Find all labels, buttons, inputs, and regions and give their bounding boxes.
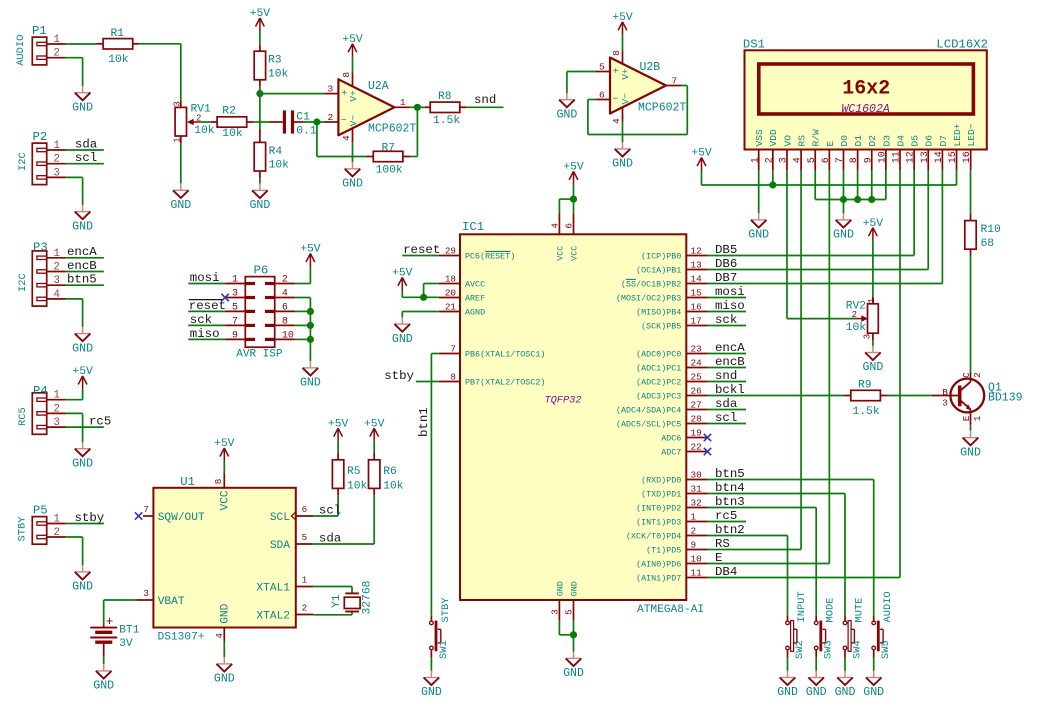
svg-text:3: 3 (779, 157, 790, 163)
wire / label miso (IC1) (708, 299, 747, 313)
svg-text:btn4: btn4 (715, 481, 745, 495)
svg-text:B: B (942, 387, 948, 398)
svg-text:(MOSI/OC2)PB3: (MOSI/OC2)PB3 (616, 294, 681, 304)
wire U2A.4 to GND (352, 142, 354, 162)
wire R4 to GND (259, 178, 261, 184)
ground (P4) (72, 442, 93, 471)
svg-text:68: 68 (981, 238, 995, 250)
svg-text:10k: 10k (268, 68, 289, 80)
svg-text:R4: R4 (269, 146, 283, 158)
svg-text:+5V: +5V (563, 162, 584, 174)
switch SW2 (INPUT) (786, 591, 808, 659)
wire +5V to RV2 (872, 241, 874, 297)
svg-text:AREF: AREF (465, 294, 485, 304)
svg-text:3: 3 (173, 101, 183, 106)
svg-text:(XCK/T0)PD4: (XCK/T0)PD4 (626, 532, 681, 542)
svg-text:GND: GND (835, 686, 856, 699)
svg-text:1: 1 (232, 275, 238, 286)
label DB5 (715, 243, 737, 257)
svg-text:(ADC2)PC2: (ADC2)PC2 (636, 378, 681, 388)
junction (bias node) (256, 90, 263, 97)
connector P4 (RC5) (17, 384, 66, 435)
svg-text:rc5: rc5 (715, 509, 737, 523)
svg-text:DS1307+: DS1307+ (158, 631, 205, 643)
LCD pin 3 (VO) (779, 135, 794, 171)
wire DB7 (LCD.14 to IC1.14) (708, 170, 943, 283)
junction (GND) (570, 631, 577, 638)
svg-text:GND: GND (300, 377, 321, 390)
power +5V (R5) (328, 418, 349, 441)
svg-text:V+: V+ (620, 68, 631, 80)
svg-text:U2A: U2A (368, 80, 389, 93)
wire P3.4 to GND (66, 299, 83, 328)
svg-text:DB5: DB5 (715, 243, 737, 257)
power +5V (LCD rail) (691, 148, 712, 171)
svg-text:16x2: 16x2 (842, 77, 890, 100)
svg-text:10k: 10k (383, 480, 404, 492)
IC1 pin 18 (AVCC) (439, 274, 485, 290)
svg-text:P5: P5 (33, 504, 48, 518)
power +5V (AVCC) (392, 268, 413, 291)
svg-text:snd: snd (715, 369, 737, 383)
svg-text:D7: D7 (938, 135, 949, 147)
svg-text:2: 2 (54, 403, 60, 415)
svg-text:10k: 10k (222, 128, 243, 140)
svg-text:0.1: 0.1 (296, 125, 317, 137)
IC1 pin 12 ((ICP)PB0) (641, 246, 707, 262)
power +5V (IC1) (563, 162, 584, 185)
wire U1.4 to GND (223, 642, 225, 658)
svg-text:3V: 3V (119, 638, 133, 650)
svg-text:btn3: btn3 (715, 495, 745, 509)
label DB6 (715, 257, 737, 271)
svg-text:1.5k: 1.5k (433, 115, 460, 127)
svg-text:SCL: SCL (270, 512, 290, 524)
svg-text:12: 12 (691, 246, 702, 257)
wire / label sda (P2.1) (66, 137, 104, 151)
svg-text:stby: stby (75, 511, 105, 525)
wire U2B+ to GND (567, 72, 596, 94)
svg-text:DB7: DB7 (715, 271, 737, 285)
no-connect U1 SQW/OUT (135, 512, 142, 519)
svg-text:2: 2 (54, 154, 60, 166)
svg-text:9: 9 (232, 331, 238, 342)
svg-text:R8: R8 (438, 91, 452, 103)
svg-text:LED+: LED+ (952, 123, 963, 146)
wire +5V to AVCC/AREF (402, 284, 439, 298)
IC U1 body (IC1 ATMEGA8) (460, 220, 704, 616)
IC1 pin 13 ((OC1A)PB1) (636, 260, 707, 276)
svg-text:sda: sda (319, 531, 342, 545)
wire RV1 wiper to R2 (201, 121, 211, 123)
svg-text:1: 1 (302, 575, 308, 586)
wire P2.3 to GND (66, 177, 83, 205)
IC1 pin 28 ((ADC5/SCL)PC5) (616, 414, 708, 430)
svg-text:miso: miso (715, 299, 745, 313)
svg-text:encB: encB (715, 355, 745, 369)
svg-text:10k: 10k (194, 125, 215, 137)
wire / label mosi (IC1) (708, 285, 747, 299)
wire DB6 (LCD.13 to IC1.13) (708, 170, 929, 269)
svg-text:+5V: +5V (328, 418, 349, 430)
wire R9 to Q1 base (888, 395, 932, 397)
svg-text:19: 19 (691, 428, 702, 439)
svg-text:PC6(RESET): PC6(RESET) (465, 252, 515, 262)
svg-text:MODE: MODE (825, 598, 837, 623)
wire / label rc5 (IC1) (708, 509, 747, 523)
ground (Q1) (960, 431, 981, 460)
svg-text:(ICP)PB0: (ICP)PB0 (641, 252, 681, 262)
crystal Y1 (32768) (313, 580, 373, 614)
svg-text:GND: GND (612, 158, 633, 171)
label DB7 (715, 271, 737, 285)
svg-text:AGND: AGND (465, 308, 485, 318)
svg-text:sda: sda (75, 137, 98, 151)
svg-text:2: 2 (302, 603, 308, 614)
svg-text:R2: R2 (222, 106, 236, 118)
svg-text:RV1: RV1 (191, 104, 212, 116)
svg-text:sck: sck (715, 313, 737, 327)
IC1 PC6 RESET overbar (485, 250, 510, 252)
svg-text:R7: R7 (382, 142, 396, 154)
potentiometer RV1 (173, 101, 215, 143)
wire P4.2 to GND (66, 413, 83, 442)
svg-text:5: 5 (564, 609, 575, 615)
svg-text:30: 30 (691, 470, 702, 481)
svg-text:P1: P1 (32, 24, 47, 38)
svg-text:10: 10 (282, 331, 294, 342)
wire +5V to IC1 VCC pins (559, 185, 573, 214)
wire R2 to C1 (254, 121, 269, 123)
svg-text:+5V: +5V (691, 148, 712, 160)
resistor R9 (844, 379, 888, 418)
wire bias node to U2A+ (260, 93, 325, 95)
junction (P6.10) (307, 336, 314, 343)
svg-text:AUDIO: AUDIO (15, 35, 27, 66)
junction (P6.6) (307, 308, 314, 315)
label DB4 (715, 565, 737, 579)
svg-text:2: 2 (54, 262, 60, 274)
svg-text:STBY: STBY (16, 516, 28, 542)
wire / label sda (IC1) (708, 397, 747, 411)
svg-text:+5V: +5V (392, 268, 413, 280)
svg-text:SDA: SDA (270, 540, 290, 552)
svg-text:2: 2 (327, 112, 333, 123)
svg-text:8: 8 (849, 157, 860, 163)
junction (P6.8) (307, 322, 314, 329)
svg-text:8: 8 (611, 50, 622, 56)
svg-text:3: 3 (54, 275, 60, 287)
svg-text:MCP602T: MCP602T (368, 123, 416, 136)
svg-text:2: 2 (764, 157, 775, 163)
wire SW3 to GND (815, 658, 817, 672)
svg-text:V+: V+ (348, 90, 359, 102)
svg-text:2: 2 (282, 275, 288, 286)
svg-text:10k: 10k (108, 54, 129, 66)
IC1 pin 22 (ADC7) (661, 442, 707, 458)
svg-text:23: 23 (691, 344, 702, 355)
IC1 pin 4 (VCC) (550, 213, 566, 260)
LCD pin 4 (RS) (793, 135, 808, 171)
wire btn2 (IC1.2 to SW2) (708, 523, 788, 616)
svg-text:8: 8 (341, 72, 352, 78)
svg-text:18: 18 (445, 274, 456, 285)
svg-text:(INT1)PD3: (INT1)PD3 (636, 518, 681, 528)
IC1 pin 14 ((SS/OC1B)PB2) (621, 274, 708, 290)
svg-text:scl: scl (75, 151, 97, 165)
svg-text:5: 5 (302, 532, 308, 543)
svg-text:(AIN1)PD7: (AIN1)PD7 (636, 574, 681, 584)
svg-text:15: 15 (948, 151, 959, 163)
svg-text:btn2: btn2 (715, 523, 745, 537)
IC1 pin 27 ((ADC4/SDA)PC4) (616, 400, 708, 416)
svg-text:9: 9 (691, 540, 697, 551)
svg-text:sda: sda (715, 397, 738, 411)
svg-text:RC5: RC5 (17, 407, 29, 426)
wire btn4 (IC1.31 to SW4) (708, 481, 846, 616)
svg-text:32768: 32768 (361, 580, 373, 614)
svg-text:E: E (825, 141, 836, 147)
IC1 pin 24 ((ADC1)PC1) (636, 358, 707, 374)
svg-text:−: − (341, 116, 347, 127)
svg-text:2: 2 (54, 48, 60, 60)
svg-text:BT1: BT1 (119, 625, 140, 637)
svg-text:MCP602T: MCP602T (638, 102, 686, 115)
wire DB4 (LCD.11 to IC1.11) (708, 170, 901, 577)
svg-text:1: 1 (54, 34, 60, 46)
LCD pin 8 (D1) (849, 135, 864, 171)
svg-text:R9: R9 (858, 379, 872, 391)
wire / label scl (U1.6 to R5) (313, 495, 341, 517)
svg-text:3: 3 (54, 417, 60, 429)
connector P1 (AUDIO) (15, 24, 66, 66)
svg-text:7: 7 (672, 75, 678, 86)
svg-text:3: 3 (54, 167, 60, 179)
ground (IC1) (563, 651, 584, 680)
svg-text:+5V: +5V (72, 366, 93, 378)
wire GND rail (R/W,D0-D3) (815, 170, 886, 213)
svg-text:D5: D5 (910, 135, 921, 147)
wire P4.1 to +5V (66, 390, 83, 400)
wire P1.1 to R1 (66, 43, 97, 45)
IC1 pin 3 (GND) (550, 581, 566, 621)
LCD pin 9 (D2) (863, 135, 878, 171)
svg-text:GND: GND (249, 199, 270, 212)
wire / label sck (P6.7) (188, 313, 225, 327)
wire U2A out to R8 (410, 106, 425, 108)
svg-text:6: 6 (821, 157, 832, 163)
svg-text:1: 1 (54, 390, 60, 402)
wire R1 to RV1 (139, 44, 180, 101)
ground (SW1) (421, 671, 442, 700)
svg-text:WC1602A: WC1602A (841, 103, 889, 116)
svg-text:3: 3 (327, 83, 333, 94)
svg-text:GND: GND (72, 342, 93, 355)
svg-text:P3: P3 (33, 240, 48, 254)
svg-text:6: 6 (564, 223, 575, 229)
svg-text:GND: GND (960, 446, 981, 459)
wire LCD VSS to GND (758, 170, 760, 213)
IC1 pin 16 ((MISO)PB4) (636, 302, 707, 318)
svg-text:1: 1 (54, 248, 60, 260)
wire / label stby (IC1.8) (384, 369, 439, 383)
svg-text:GND: GND (72, 457, 93, 470)
wire SW4 to GND (844, 658, 846, 672)
power +5V (P4) (72, 366, 93, 389)
svg-text:10: 10 (877, 151, 888, 163)
wire IC1 GND pins (559, 621, 573, 653)
switch SW3 (MODE) (814, 598, 836, 659)
svg-text:LCD16X2: LCD16X2 (936, 38, 988, 52)
power +5V (RV2) (863, 218, 884, 241)
svg-text:R10: R10 (981, 224, 1002, 236)
svg-text:GND: GND (93, 680, 114, 693)
svg-text:(RXD)PD0: (RXD)PD0 (641, 476, 681, 486)
svg-text:2: 2 (972, 372, 983, 378)
svg-text:(ADC4/SDA)PC4: (ADC4/SDA)PC4 (616, 406, 681, 416)
svg-text:GND: GND (748, 229, 769, 242)
wire R7 to C1 node (317, 122, 366, 157)
svg-text:RS: RS (796, 135, 807, 147)
svg-text:snd: snd (474, 93, 496, 107)
svg-text:1: 1 (54, 514, 60, 526)
LCD pin 14 (D7) (934, 135, 949, 170)
svg-text:10: 10 (691, 554, 702, 565)
svg-text:D0: D0 (839, 135, 850, 147)
svg-text:AUDIO: AUDIO (882, 591, 894, 622)
svg-text:mosi: mosi (190, 271, 220, 285)
wire Q1 emitter to GND (970, 425, 972, 431)
svg-text:+: + (341, 89, 347, 100)
svg-text:GND: GND (72, 581, 93, 594)
IC1 pin 23 ((ADC0)PC0) (636, 344, 707, 360)
ground (P2) (72, 205, 93, 234)
svg-text:VCC: VCC (556, 246, 566, 261)
svg-text:20: 20 (445, 288, 456, 299)
svg-text:3: 3 (550, 609, 561, 615)
svg-text:29: 29 (445, 246, 456, 257)
svg-text:SW1: SW1 (438, 640, 450, 659)
svg-text:btn1: btn1 (417, 407, 431, 437)
LCD module DS1 (LCD16X2) (743, 38, 988, 150)
svg-text:4: 4 (282, 289, 288, 300)
svg-text:10k: 10k (846, 322, 867, 334)
svg-text:U1: U1 (180, 475, 195, 489)
power +5V (U1) (214, 438, 235, 461)
svg-text:−: − (612, 94, 618, 105)
svg-text:btn5: btn5 (67, 273, 97, 287)
ground (SW2) (777, 671, 798, 700)
svg-text:mosi: mosi (715, 285, 745, 299)
svg-text:scl: scl (715, 411, 737, 425)
LCD pin 5 (R/W) (807, 129, 822, 170)
ground (P1) (72, 86, 93, 115)
no-connect ADC7 (704, 448, 711, 455)
svg-text:5: 5 (232, 303, 238, 314)
svg-text:encA: encA (715, 341, 745, 355)
wire btn5 (IC1.30 to SW5) (708, 467, 874, 616)
svg-text:R6: R6 (383, 466, 397, 478)
svg-text:31: 31 (691, 484, 703, 495)
ground (LCD VSS) (748, 213, 769, 242)
svg-text:stby: stby (384, 369, 414, 383)
wire U2B feedback loop (588, 86, 687, 135)
svg-text:PB7(XTAL2/TOSC2): PB7(XTAL2/TOSC2) (465, 378, 545, 388)
svg-text:+5V: +5V (250, 8, 271, 20)
LCD pin 6 (E) (821, 141, 836, 171)
IC1 pin 26 ((ADC3)PC3) (636, 386, 707, 402)
svg-text:PB6(XTAL1/TOSC1): PB6(XTAL1/TOSC1) (465, 350, 545, 360)
wire P1.2 to GND (66, 58, 83, 87)
svg-text:3: 3 (942, 398, 948, 409)
connector P3 (I2C) (17, 240, 66, 306)
svg-text:D4: D4 (895, 135, 906, 147)
svg-text:GND: GND (72, 220, 93, 233)
svg-text:4: 4 (793, 157, 804, 163)
svg-text:GND: GND (72, 101, 93, 114)
no-connect P6.3 (221, 294, 228, 301)
svg-text:RV2: RV2 (846, 301, 866, 313)
wire P5.2 to GND (66, 537, 83, 566)
ground (RV2) (862, 346, 883, 375)
svg-text:12: 12 (906, 151, 917, 163)
svg-text:GND: GND (833, 229, 854, 242)
svg-text:1: 1 (750, 157, 761, 163)
label E (715, 551, 722, 565)
svg-text:21: 21 (445, 302, 457, 313)
svg-text:I2C: I2C (17, 152, 29, 171)
svg-text:GND: GND (392, 333, 413, 346)
svg-text:(AIN0)PD6: (AIN0)PD6 (636, 560, 681, 570)
IC1 pin 10 ((AIN0)PD6) (636, 554, 707, 570)
svg-text:SQW/OUT: SQW/OUT (158, 512, 205, 524)
svg-text:27: 27 (691, 400, 702, 411)
svg-text:SW4: SW4 (852, 640, 864, 659)
op-amp U2A (325, 57, 417, 142)
wire btn3 (IC1.32 to SW3) (708, 495, 817, 616)
IC1 pin 8 (PB7(XTAL2/TOSC2)) (439, 372, 546, 388)
potentiometer RV2 (846, 297, 879, 340)
ground (SW5) (863, 671, 884, 700)
svg-text:17: 17 (691, 316, 702, 327)
svg-text:25: 25 (691, 372, 702, 383)
LCD pin 15 (LED+) (948, 123, 963, 170)
svg-text:GND: GND (342, 178, 363, 191)
svg-text:3: 3 (863, 334, 873, 339)
wire / label sda (U1.5 to R6) (313, 495, 374, 545)
svg-text:INPUT: INPUT (796, 591, 808, 622)
wire R3 to R4 (259, 87, 261, 129)
svg-text:VCC: VCC (220, 490, 232, 510)
svg-text:16: 16 (962, 151, 973, 163)
LCD pin 12 (D5) (906, 135, 921, 171)
wire RV2 wiper (851, 318, 855, 320)
junction (D1) (854, 196, 861, 203)
LCD pin 11 (D4) (892, 135, 907, 171)
wire / label reset (IC1.29) (402, 243, 440, 257)
svg-text:GND: GND (806, 686, 827, 699)
svg-text:(ADC1)PC1: (ADC1)PC1 (636, 364, 681, 374)
svg-text:5: 5 (599, 61, 605, 72)
label RS (715, 537, 730, 551)
svg-text:rc5: rc5 (89, 414, 111, 428)
wire bckl (IC1.26 to R9) (708, 383, 844, 397)
svg-text:8: 8 (450, 372, 456, 383)
svg-text:8: 8 (213, 479, 224, 485)
ground (R4) (249, 183, 270, 212)
IC U1 (DS1307) (136, 462, 313, 644)
svg-text:3: 3 (143, 588, 149, 599)
